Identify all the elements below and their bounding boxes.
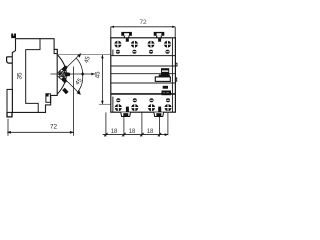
toggle handle up position bbox=[58, 64, 69, 76]
bottom dim line bbox=[103, 134, 169, 136]
din clip slide plate bbox=[7, 89, 12, 112]
rear top terminal screw nub bbox=[11, 34, 16, 39]
left edge inner notch line lower bbox=[112, 97, 114, 112]
pivot dot bbox=[58, 73, 61, 76]
face horizontal line 2 bbox=[111, 65, 176, 67]
clamp screw marks above bottom clamps bbox=[126, 107, 129, 113]
din rail claw bbox=[7, 57, 13, 63]
upper ray tip arrowhead bbox=[77, 53, 81, 57]
top terminal clamp pole 3-4 bbox=[154, 32, 165, 38]
switch lever bbox=[159, 68, 170, 77]
face horizontal line 3 bbox=[111, 73, 176, 75]
side 72 dim arrows bbox=[7, 131, 11, 134]
handle swing envelope arc bbox=[57, 55, 66, 95]
bottom dim slash ticks bbox=[104, 133, 161, 136]
svg-text:72: 72 bbox=[50, 124, 58, 131]
svg-text:18: 18 bbox=[111, 129, 118, 135]
svg-text:18: 18 bbox=[129, 129, 136, 135]
top dim 72: dimension line bbox=[111, 26, 175, 28]
upper swing arc bbox=[76, 58, 83, 74]
svg-text:72: 72 bbox=[140, 19, 148, 26]
dim 45 vertical line bbox=[101, 55, 103, 105]
pivot vertical tick bbox=[59, 71, 61, 78]
side view outer outline bbox=[12, 39, 57, 113]
face horizontal line 1 bbox=[111, 55, 176, 57]
svg-text:45: 45 bbox=[95, 71, 101, 78]
bottom terminal screw block bbox=[46, 94, 51, 103]
face thick line 5 bbox=[111, 93, 176, 95]
bottom dim pole4 screw extension line bbox=[167, 113, 169, 135]
lower ray tip arrowhead bbox=[77, 90, 81, 94]
top dim extension right bbox=[174, 27, 176, 38]
arc centerline crossing mark bbox=[81, 72, 84, 76]
toggle handle down position bbox=[57, 72, 68, 84]
bottom screws row (dark discs with white cross slots) bbox=[115, 104, 172, 111]
svg-text:45: 45 bbox=[84, 55, 92, 64]
lower swing arc bbox=[78, 74, 83, 92]
small slotted screws under top screws bbox=[116, 50, 170, 54]
din clip bottom tab bbox=[7, 112, 12, 117]
left edge inner notch line bbox=[112, 50, 114, 56]
svg-text:35: 35 bbox=[17, 72, 24, 80]
right edge inner line bbox=[171, 38, 173, 112]
clamp screw marks below top clamps bbox=[126, 38, 129, 41]
dim 45 arrows bbox=[101, 55, 104, 59]
face horizontal line 4 bbox=[111, 82, 176, 84]
front face step block bbox=[54, 49, 57, 53]
test button small pill bbox=[163, 86, 168, 89]
switch base bbox=[155, 77, 170, 82]
test button bbox=[162, 91, 172, 96]
front view outer box bbox=[111, 38, 176, 112]
centerline through pivot bbox=[51, 73, 95, 75]
top screws row (dark discs with white cross slots) bbox=[114, 41, 171, 48]
interior wall line (terminal block separation) bbox=[26, 38, 40, 112]
top dim arrows / corner dots bbox=[111, 26, 114, 28]
bottom dim 18s: extension lines bbox=[105, 112, 107, 136]
bottom clamp pole 2 bbox=[121, 112, 131, 116]
right edge nub lower bbox=[175, 78, 176, 81]
dim 45 bottom tick bbox=[99, 103, 112, 105]
top dim extension left bbox=[110, 27, 112, 38]
small slotted screws above bottom screws bbox=[116, 98, 170, 102]
toggle handle neutral position bbox=[59, 72, 70, 77]
side view 72 dim line bbox=[7, 131, 73, 133]
bottom front screw foot bbox=[62, 88, 68, 95]
centerline arrow at arc bbox=[91, 73, 94, 76]
lower 45-deg ray bbox=[60, 74, 81, 94]
side view 72 dim: right extension line bbox=[73, 67, 75, 136]
bottom clamp pole 4 bbox=[154, 112, 164, 116]
upper 45-deg ray bbox=[60, 54, 81, 74]
dim 45 top tick bbox=[57, 54, 112, 56]
right edge nub upper bbox=[175, 63, 177, 66]
bottom dim end arrow bbox=[165, 133, 169, 136]
top terminal clamp pole 1-2 bbox=[121, 32, 132, 38]
side view 72 dim: left extension line bbox=[7, 119, 9, 136]
svg-text:18: 18 bbox=[147, 129, 154, 135]
